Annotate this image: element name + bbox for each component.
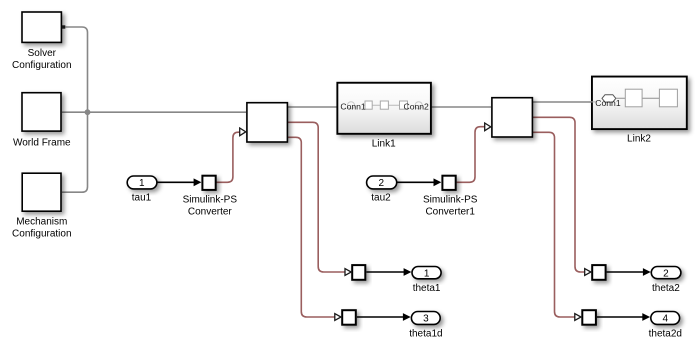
block PS-Simulink converter theta2: [585, 265, 606, 280]
block World Frame: [13, 93, 71, 149]
svg-text:theta1: theta1: [413, 283, 441, 294]
svg-text:Simulink-PS: Simulink-PS: [423, 194, 478, 205]
svg-text:Link2: Link2: [627, 134, 651, 145]
svg-text:3: 3: [423, 314, 429, 325]
svg-text:Converter1: Converter1: [425, 206, 475, 217]
block PS-Simulink converter theta1d: [335, 310, 356, 325]
svg-text:1: 1: [139, 178, 145, 189]
block joint1 Revolute Joint: [240, 103, 288, 142]
block Simulink-PS Converter: [183, 176, 238, 218]
wire world frame to joint1: [62, 111, 246, 113]
svg-text:Conn1: Conn1: [595, 98, 621, 108]
svg-text:Solver: Solver: [28, 48, 57, 59]
outport theta1d: [409, 312, 442, 340]
block Mechanism Configuration: [12, 173, 71, 239]
svg-text:Simulink-PS: Simulink-PS: [183, 194, 238, 205]
wire converter to joint1 PS input: [217, 132, 240, 182]
svg-text:Configuration: Configuration: [12, 60, 71, 71]
wire joint2 to Link2: [533, 101, 592, 103]
svg-text:Conn2: Conn2: [404, 101, 430, 111]
block PS-Simulink converter theta2d: [575, 310, 596, 325]
subsystem Link1: [337, 83, 431, 150]
wire joint1 w output to theta1d converter: [288, 137, 335, 317]
signal theta1 converter to outport: [366, 268, 411, 276]
block Solver Configuration: [12, 12, 71, 71]
svg-text:Conn1: Conn1: [340, 101, 366, 111]
subsystem Link2: [591, 77, 687, 145]
svg-text:Converter: Converter: [188, 206, 233, 217]
signal theta2d converter to outport: [597, 313, 650, 321]
signal theta2 converter to outport: [607, 268, 651, 276]
outport theta1: [412, 267, 441, 294]
svg-text:Link1: Link1: [372, 138, 396, 149]
block joint2 Revolute Joint: [485, 98, 533, 137]
wire mechanism to bus: [62, 112, 88, 192]
inport tau1: [127, 176, 157, 204]
wire Link1 to joint2: [431, 106, 491, 108]
svg-text:Mechanism: Mechanism: [16, 216, 67, 227]
outport theta2d: [649, 312, 682, 340]
block Simulink-PS Converter1: [423, 176, 478, 218]
signal tau2 to converter1: [397, 178, 442, 186]
outport theta2: [651, 267, 681, 294]
svg-text:World Frame: World Frame: [13, 138, 71, 149]
svg-text:1: 1: [424, 268, 430, 279]
signal tau1 to converter: [157, 178, 201, 186]
wire joint2 w output to theta2d converter: [533, 132, 575, 317]
junction bus node: [85, 109, 91, 115]
wire joint1 to Link1: [288, 106, 337, 108]
inport tau2: [367, 176, 397, 204]
wire converter1 to joint2 PS input: [457, 127, 485, 183]
block PS-Simulink converter theta1: [345, 265, 365, 280]
svg-text:theta1d: theta1d: [409, 329, 442, 340]
wire joint2 q output to theta2 converter: [533, 117, 585, 272]
svg-text:Configuration: Configuration: [12, 228, 71, 239]
svg-text:tau1: tau1: [132, 193, 152, 204]
svg-text:2: 2: [379, 178, 385, 189]
svg-text:theta2: theta2: [652, 283, 680, 294]
wire joint1 q output to theta1 converter: [288, 122, 346, 272]
svg-text:2: 2: [663, 269, 669, 280]
svg-text:4: 4: [663, 314, 669, 325]
svg-text:theta2d: theta2d: [649, 329, 682, 340]
wire solver to bus: [66, 27, 88, 112]
svg-text:tau2: tau2: [371, 193, 391, 204]
signal theta1d converter to outport: [357, 313, 411, 321]
